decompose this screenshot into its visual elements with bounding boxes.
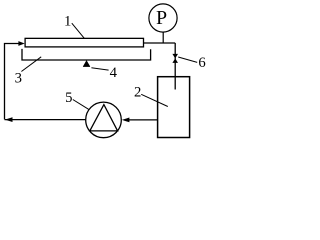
pressure gauge P circle [149, 4, 177, 32]
leader line for label 4 [91, 68, 108, 70]
inlet arrow into tube [18, 41, 24, 46]
svg-text:1: 1 [64, 13, 71, 29]
leader line for label 1 [72, 23, 85, 38]
svg-text:2: 2 [134, 85, 141, 101]
leader line for label 3 [21, 57, 41, 72]
bottom return wire [5, 119, 86, 121]
pump triangle [90, 105, 118, 131]
leader line for label 2 [141, 94, 168, 106]
valve 6 (filled hourglass) [172, 54, 178, 59]
svg-text:3: 3 [15, 71, 22, 87]
tube 1 (horizontal measuring tube) [25, 38, 143, 47]
bottom-left arrowhead [5, 117, 13, 122]
leader line for label 6 [178, 57, 197, 62]
svg-text:5: 5 [65, 90, 72, 106]
heater pointer 4 (filled triangle under jacket) [83, 61, 90, 67]
pump 5 (circle) [86, 102, 122, 138]
pipe tank to pump [128, 119, 157, 121]
svg-text:P: P [156, 7, 167, 29]
svg-text:4: 4 [110, 65, 118, 81]
valve drop pipe with dip tube into tank [174, 43, 176, 90]
gauge stem [162, 32, 164, 43]
svg-text:6: 6 [198, 55, 205, 71]
jacket 3 (open-top trough under tube) [22, 49, 151, 60]
top pipe from tube to valve drop [144, 42, 176, 44]
arrowhead into pump [122, 118, 130, 123]
left riser wire [5, 44, 20, 120]
tank 2 [158, 77, 190, 138]
leader line for label 5 [73, 100, 89, 110]
